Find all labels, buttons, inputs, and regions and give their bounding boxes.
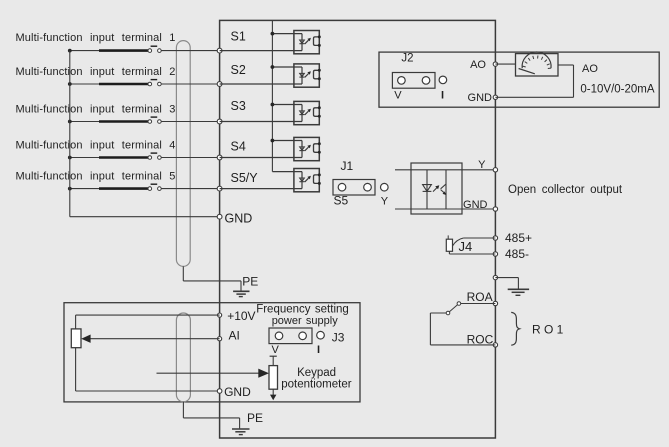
svg-text:R O 1: R O 1 xyxy=(532,323,564,337)
svg-text:PE: PE xyxy=(247,411,263,425)
svg-text:AO: AO xyxy=(582,63,598,75)
svg-text:V: V xyxy=(394,89,402,101)
svg-text:ROA: ROA xyxy=(467,290,493,304)
svg-text:Keypad: Keypad xyxy=(297,367,336,379)
svg-text:S4: S4 xyxy=(231,140,246,154)
svg-text:Y: Y xyxy=(381,196,389,208)
svg-text:I: I xyxy=(441,89,444,101)
svg-text:potentiometer: potentiometer xyxy=(281,378,351,390)
svg-text:J2: J2 xyxy=(401,52,413,64)
svg-text:S3: S3 xyxy=(231,99,246,113)
svg-text:+10V: +10V xyxy=(227,309,255,323)
svg-text:Open collector output: Open collector output xyxy=(508,184,623,196)
svg-text:I: I xyxy=(317,344,320,356)
svg-text:0-10V/0-20mA: 0-10V/0-20mA xyxy=(580,84,654,96)
svg-text:Multi-function input terminal: Multi-function input terminal 3 xyxy=(16,104,176,116)
svg-text:GND: GND xyxy=(463,199,488,211)
svg-text:Multi-function input terminal: Multi-function input terminal 1 xyxy=(16,32,176,44)
svg-text:S5/Y: S5/Y xyxy=(231,171,259,185)
svg-text:Multi-function input terminal: Multi-function input terminal 4 xyxy=(16,140,176,152)
svg-text:PE: PE xyxy=(242,275,258,289)
svg-text:Y: Y xyxy=(478,159,486,171)
svg-text:GND: GND xyxy=(468,92,493,104)
svg-text:Multi-function input terminal: Multi-function input terminal 5 xyxy=(16,171,176,183)
svg-text:S1: S1 xyxy=(231,30,246,44)
svg-text:ROC: ROC xyxy=(467,332,494,346)
svg-text:J4: J4 xyxy=(459,239,473,254)
svg-text:AI: AI xyxy=(229,328,240,342)
svg-text:485-: 485- xyxy=(505,247,529,261)
svg-text:S2: S2 xyxy=(231,63,246,77)
svg-text:J1: J1 xyxy=(341,159,354,173)
svg-text:485+: 485+ xyxy=(505,231,532,245)
svg-text:S5: S5 xyxy=(334,194,349,208)
svg-text:Frequency setting: Frequency setting xyxy=(256,303,349,315)
svg-text:power supply: power supply xyxy=(272,315,339,327)
svg-text:V: V xyxy=(272,344,280,356)
svg-text:AO: AO xyxy=(470,59,486,71)
svg-text:GND: GND xyxy=(224,385,251,399)
svg-text:J3: J3 xyxy=(332,330,345,344)
svg-text:Multi-function input terminal: Multi-function input terminal 2 xyxy=(16,66,176,78)
svg-text:GND: GND xyxy=(225,211,253,225)
